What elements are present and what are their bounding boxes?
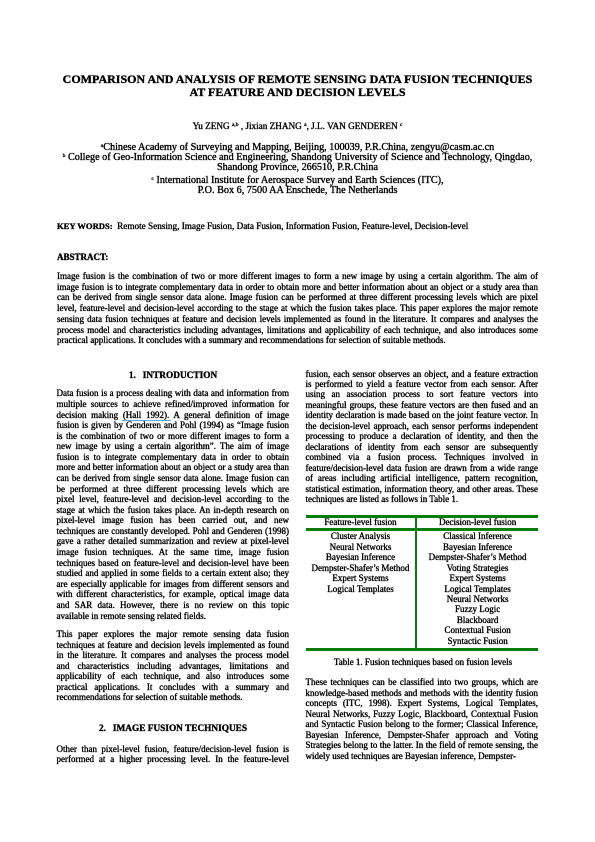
divider — [415, 518, 417, 648]
right cell rows — [417, 531, 538, 646]
table 1 — [306, 515, 538, 651]
right col para 2 — [306, 677, 539, 761]
left col para 1 — [57, 388, 290, 621]
title — [0, 73, 595, 101]
abstract heading — [57, 252, 538, 262]
table caption — [307, 657, 539, 667]
header row — [306, 518, 415, 531]
keywords — [57, 221, 538, 231]
abstract body — [57, 271, 538, 346]
left col para 2 — [57, 629, 290, 703]
authors — [0, 121, 595, 132]
left col para 3 — [57, 744, 290, 765]
section 2 heading — [57, 724, 289, 735]
section 1 heading — [57, 371, 289, 382]
affiliations — [0, 143, 595, 197]
right col para 1 — [306, 369, 539, 505]
left cell rows — [306, 531, 415, 594]
hall 1992 hyperlink underline — [122, 420, 171, 422]
